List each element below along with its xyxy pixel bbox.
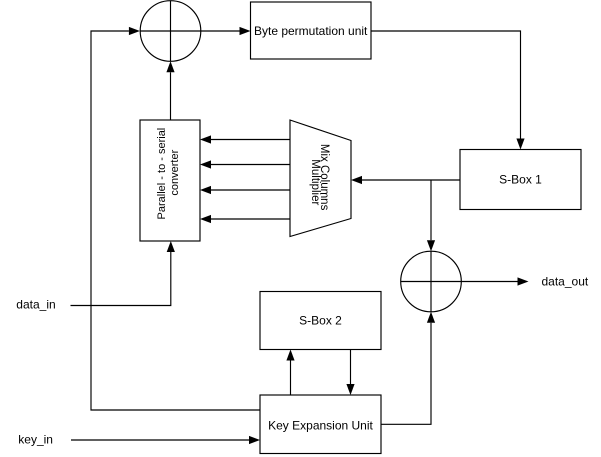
block U3 Mix Columns Multiplier (trapezoid)	[290, 120, 351, 237]
wire X1 output to Byte permutation unit	[201, 27, 251, 35]
svg-text:Byte permutation unit: Byte permutation unit	[254, 24, 368, 38]
svg-text:S-Box 1: S-Box 1	[499, 173, 542, 187]
wire Byte permutation unit to S-Box 1	[371, 31, 525, 150]
block U6 Key Expansion Unit	[260, 395, 381, 454]
wire junction node on S-Box1 output down to X2	[427, 180, 435, 251]
wire Parallel-to-serial converter to X1	[166, 61, 174, 120]
svg-text:Key Expansion Unit: Key Expansion Unit	[268, 418, 373, 432]
wire key_in to Key Expansion Unit	[71, 436, 260, 444]
block U2 S-Box 1	[460, 150, 581, 210]
block U4 Parallel - to - serial converter	[140, 120, 200, 241]
block U1 Byte permutation unit	[251, 2, 372, 59]
wire S-Box 1 output to Mix Columns Multiplier	[351, 176, 460, 184]
xor gate X1 (top AddRoundKey)	[140, 1, 201, 62]
wire Key Expansion Unit up to S-Box 2	[286, 350, 294, 396]
wire bus line 3: Mix Columns to Parallel-to-serial converter	[200, 186, 290, 194]
svg-text:S-Box 2: S-Box 2	[299, 314, 342, 328]
svg-text:Parallel - to - serial: Parallel - to - serial	[156, 128, 168, 220]
svg-text:data_out: data_out	[542, 275, 589, 289]
wire X2 to data_out	[461, 277, 528, 285]
svg-text:converter: converter	[169, 149, 181, 195]
wire Key Expansion Unit to X2	[381, 312, 435, 425]
wire S-Box 2 down to Key Expansion Unit	[346, 350, 354, 396]
block U5 S-Box 2	[260, 292, 381, 350]
xor gate X2 (output AddRoundKey)	[401, 251, 462, 312]
wire data_in to Parallel-to-serial converter	[71, 241, 175, 306]
wire bus line 2: Mix Columns to Parallel-to-serial converter	[200, 160, 290, 168]
wire bus line 1: Mix Columns to Parallel-to-serial converter	[200, 135, 290, 143]
svg-text:key_in: key_in	[18, 433, 53, 447]
svg-text:Multiplier: Multiplier	[309, 159, 321, 205]
wire key feedback: Key Expansion Unit left edge to X1 left input	[91, 27, 260, 410]
svg-text:data_in: data_in	[16, 298, 55, 312]
wire bus line 4: Mix Columns to Parallel-to-serial converter	[200, 215, 290, 223]
